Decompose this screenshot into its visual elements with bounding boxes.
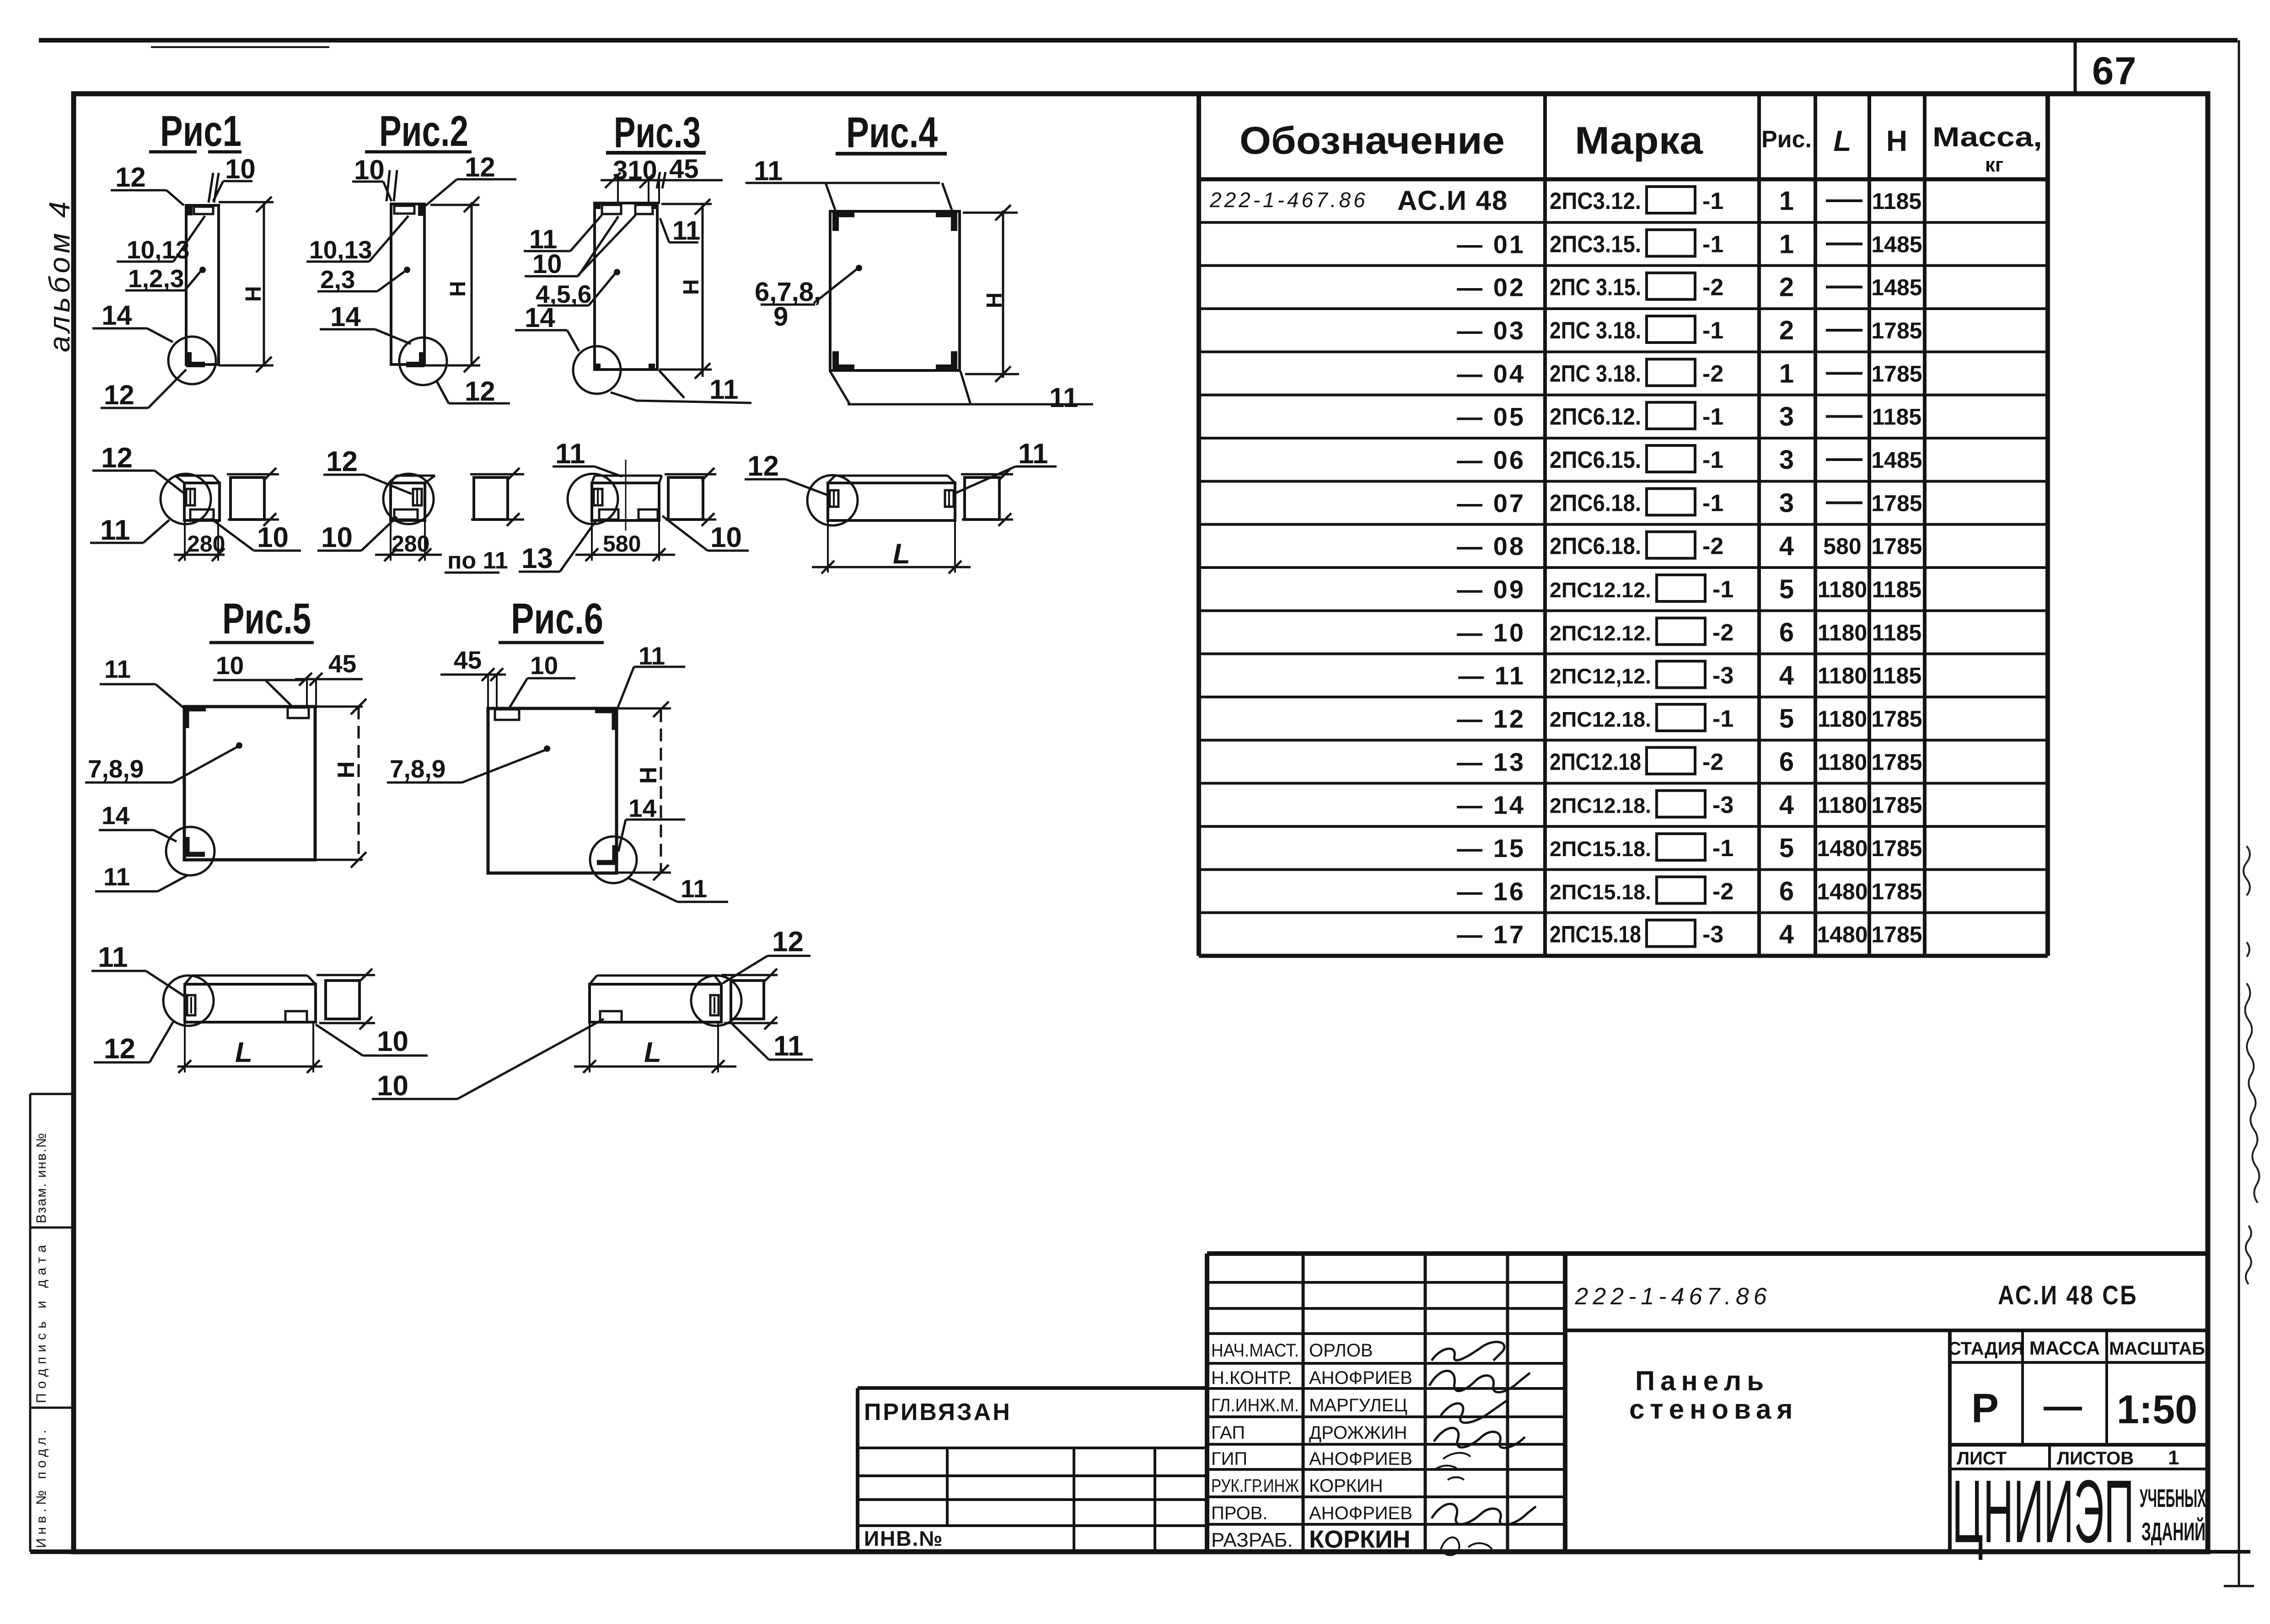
svg-text:-1: -1 <box>1702 447 1723 473</box>
svg-text:1: 1 <box>1779 229 1794 259</box>
svg-text:4: 4 <box>1779 531 1794 561</box>
svg-text:2ПС15.18.: 2ПС15.18. <box>1550 837 1651 861</box>
svg-text:-1: -1 <box>1702 490 1723 516</box>
svg-text:ПРОВ.: ПРОВ. <box>1211 1503 1267 1523</box>
svg-text:-1: -1 <box>1702 188 1723 214</box>
svg-text:2ПС15.18.: 2ПС15.18. <box>1550 880 1651 904</box>
svg-text:1:50: 1:50 <box>2117 1387 2197 1432</box>
svg-text:КОРКИН: КОРКИН <box>1309 1476 1383 1496</box>
svg-text:5: 5 <box>1779 833 1794 863</box>
svg-text:Рис.: Рис. <box>1761 126 1812 153</box>
svg-text:Н: Н <box>446 281 470 297</box>
svg-text:ОРЛОВ: ОРЛОВ <box>1309 1340 1373 1361</box>
svg-text:1: 1 <box>1779 186 1794 216</box>
svg-text:ЗДАНИЙ: ЗДАНИЙ <box>2141 1517 2206 1546</box>
svg-text:Обозначение: Обозначение <box>1240 119 1505 162</box>
svg-text:1480: 1480 <box>1817 922 1868 948</box>
svg-text:-1: -1 <box>1712 706 1733 732</box>
svg-text:10: 10 <box>321 522 353 553</box>
svg-text:— 09: — 09 <box>1457 575 1525 604</box>
svg-text:L: L <box>1833 124 1851 157</box>
svg-text:11: 11 <box>672 216 700 246</box>
svg-text:НАЧ.МАСТ.: НАЧ.МАСТ. <box>1211 1340 1299 1361</box>
svg-text:1180: 1180 <box>1818 749 1867 775</box>
svg-text:1485: 1485 <box>1871 231 1922 257</box>
svg-text:-1: -1 <box>1702 404 1723 430</box>
svg-text:1185: 1185 <box>1872 404 1921 430</box>
svg-text:Рис1: Рис1 <box>160 107 241 155</box>
svg-text:РАЗРАБ.: РАЗРАБ. <box>1211 1529 1293 1551</box>
svg-text:-2: -2 <box>1702 749 1723 775</box>
svg-text:1180: 1180 <box>1818 620 1867 645</box>
svg-text:L: L <box>893 538 910 570</box>
svg-text:1185: 1185 <box>1872 663 1921 689</box>
svg-text:1: 1 <box>1779 359 1794 388</box>
svg-text:10: 10 <box>216 651 244 680</box>
svg-text:МАСШТАБ: МАСШТАБ <box>2109 1339 2205 1359</box>
svg-text:Взам. инв.№: Взам. инв.№ <box>34 1132 49 1223</box>
svg-text:280: 280 <box>187 531 225 557</box>
svg-text:L: L <box>235 1037 252 1068</box>
svg-text:РУК.ГР.ИНЖ: РУК.ГР.ИНЖ <box>1211 1476 1299 1496</box>
svg-text:Рис.3: Рис.3 <box>614 108 701 157</box>
svg-text:1785: 1785 <box>1871 490 1922 516</box>
svg-text:6: 6 <box>1779 747 1794 777</box>
svg-text:2ПС12,12.: 2ПС12,12. <box>1550 665 1651 688</box>
svg-text:2ПС12.18.: 2ПС12.18. <box>1550 794 1651 818</box>
svg-text:4: 4 <box>1779 790 1794 820</box>
svg-text:11: 11 <box>1018 438 1048 470</box>
svg-text:ДРОЖЖИН: ДРОЖЖИН <box>1309 1423 1407 1443</box>
svg-text:Н: Н <box>241 286 266 302</box>
svg-text:11: 11 <box>773 1030 804 1062</box>
svg-text:7,8,9: 7,8,9 <box>88 755 144 783</box>
svg-text:1485: 1485 <box>1871 447 1922 473</box>
svg-text:2ПС 3.18.: 2ПС 3.18. <box>1550 317 1641 344</box>
svg-text:9: 9 <box>773 302 788 332</box>
svg-text:— 05: — 05 <box>1457 402 1525 431</box>
svg-text:2ПС6.18.: 2ПС6.18. <box>1550 533 1641 560</box>
svg-text:КОРКИН: КОРКИН <box>1309 1526 1411 1553</box>
svg-text:-1: -1 <box>1702 231 1723 257</box>
svg-text:4: 4 <box>1779 920 1794 949</box>
svg-text:ПРИВЯЗАН: ПРИВЯЗАН <box>864 1399 1012 1426</box>
svg-text:580: 580 <box>1823 534 1861 559</box>
svg-text:10: 10 <box>257 522 289 553</box>
svg-text:Н.КОНТР.: Н.КОНТР. <box>1211 1368 1293 1388</box>
svg-text:-2: -2 <box>1712 878 1733 905</box>
svg-text:3: 3 <box>1779 488 1794 518</box>
svg-text:-3: -3 <box>1712 792 1733 819</box>
svg-text:12: 12 <box>104 1033 135 1065</box>
svg-text:2ПС6.18.: 2ПС6.18. <box>1550 490 1641 516</box>
svg-text:Н: Н <box>333 761 360 778</box>
svg-text:ИНВ.№: ИНВ.№ <box>864 1527 944 1550</box>
svg-text:2: 2 <box>1779 316 1794 345</box>
svg-text:— 06: — 06 <box>1457 445 1525 474</box>
svg-text:Рис.5: Рис.5 <box>222 595 311 643</box>
svg-text:2ПС12.12.: 2ПС12.12. <box>1550 578 1651 602</box>
svg-text:10: 10 <box>377 1070 408 1102</box>
svg-text:45: 45 <box>328 649 356 678</box>
svg-text:11: 11 <box>103 863 130 891</box>
svg-text:2ПС12.12.: 2ПС12.12. <box>1550 621 1651 645</box>
svg-text:1,2,3: 1,2,3 <box>128 264 184 293</box>
svg-text:ГЛ.ИНЖ.М.: ГЛ.ИНЖ.М. <box>1211 1395 1299 1415</box>
svg-text:1480: 1480 <box>1817 836 1868 861</box>
svg-text:Рис.2: Рис.2 <box>379 107 468 155</box>
svg-text:Марка: Марка <box>1575 119 1703 162</box>
svg-text:2: 2 <box>1779 273 1794 302</box>
svg-text:1785: 1785 <box>1871 879 1922 904</box>
svg-text:10: 10 <box>377 1026 408 1057</box>
svg-text:1180: 1180 <box>1818 577 1867 602</box>
svg-text:1785: 1785 <box>1871 706 1922 732</box>
svg-text:12: 12 <box>101 442 133 474</box>
svg-text:12: 12 <box>115 162 146 193</box>
svg-text:222-1-467.86: 222-1-467.86 <box>1209 188 1368 212</box>
svg-text:Н: Н <box>982 292 1007 308</box>
svg-text:14: 14 <box>102 801 130 830</box>
svg-text:14: 14 <box>330 301 361 332</box>
svg-text:— 11: — 11 <box>1458 661 1525 690</box>
svg-text:1: 1 <box>2168 1447 2179 1469</box>
svg-text:АНОФРИЕВ: АНОФРИЕВ <box>1309 1368 1412 1388</box>
svg-text:— 02: — 02 <box>1457 273 1525 302</box>
svg-text:12: 12 <box>326 446 358 477</box>
svg-text:СТАДИЯ: СТАДИЯ <box>1948 1339 2024 1359</box>
svg-text:5: 5 <box>1779 704 1794 734</box>
svg-text:10: 10 <box>225 154 256 184</box>
svg-text:2ПС 3.15.: 2ПС 3.15. <box>1550 274 1641 301</box>
svg-text:45: 45 <box>454 646 482 674</box>
svg-text:Н: Н <box>635 766 662 784</box>
svg-text:АС.И 48 СБ: АС.И 48 СБ <box>1998 1281 2138 1310</box>
svg-text:Масса,: Масса, <box>1932 122 2042 152</box>
svg-text:ГАП: ГАП <box>1211 1423 1245 1443</box>
svg-text:1480: 1480 <box>1817 879 1868 904</box>
svg-text:580: 580 <box>603 531 641 557</box>
svg-text:1485: 1485 <box>1871 275 1922 300</box>
svg-text:6: 6 <box>1779 617 1794 647</box>
svg-text:10: 10 <box>530 651 558 680</box>
svg-text:1785: 1785 <box>1871 534 1922 559</box>
svg-text:1180: 1180 <box>1818 663 1867 689</box>
svg-text:Н: Н <box>1886 124 1907 157</box>
svg-text:— 01: — 01 <box>1457 230 1525 258</box>
svg-text:222-1-467.86: 222-1-467.86 <box>1574 1283 1771 1310</box>
svg-text:Панель: Панель <box>1635 1366 1769 1396</box>
svg-text:11: 11 <box>681 874 707 903</box>
svg-text:11: 11 <box>555 438 585 470</box>
svg-text:Подпись и дата: Подпись и дата <box>34 1240 49 1403</box>
svg-text:3: 3 <box>1779 402 1794 432</box>
svg-text:по 11: по 11 <box>447 547 508 574</box>
svg-text:-1: -1 <box>1712 835 1733 862</box>
svg-text:— 10: — 10 <box>1457 618 1525 647</box>
svg-text:10: 10 <box>532 249 562 279</box>
svg-text:7,8,9: 7,8,9 <box>390 755 445 783</box>
svg-text:— 14: — 14 <box>1457 791 1525 820</box>
svg-text:2ПС12.18.: 2ПС12.18. <box>1550 707 1651 731</box>
svg-text:12: 12 <box>104 380 134 410</box>
svg-text:5: 5 <box>1779 574 1794 604</box>
svg-text:— 03: — 03 <box>1457 316 1525 345</box>
svg-text:— 17: — 17 <box>1457 920 1525 949</box>
svg-text:3: 3 <box>1779 445 1794 475</box>
svg-text:Р: Р <box>1971 1386 1999 1431</box>
svg-text:АС.И 48: АС.И 48 <box>1397 185 1508 216</box>
svg-text:2,3: 2,3 <box>320 265 355 294</box>
svg-text:— 04: — 04 <box>1457 359 1525 388</box>
svg-text:1185: 1185 <box>1872 620 1921 645</box>
svg-text:67: 67 <box>2092 49 2137 93</box>
svg-text:12: 12 <box>465 152 495 182</box>
svg-text:10,13: 10,13 <box>309 236 372 264</box>
svg-text:11: 11 <box>100 515 130 546</box>
svg-text:-2: -2 <box>1712 619 1733 646</box>
svg-text:1785: 1785 <box>1871 922 1922 948</box>
svg-text:2ПС3.15.: 2ПС3.15. <box>1550 231 1641 257</box>
svg-text:10: 10 <box>710 522 742 553</box>
svg-text:— 07: — 07 <box>1457 488 1525 517</box>
svg-text:МАРГУЛЕЦ: МАРГУЛЕЦ <box>1309 1395 1407 1415</box>
svg-text:— 12: — 12 <box>1457 704 1525 733</box>
svg-text:-2: -2 <box>1702 360 1723 387</box>
svg-text:Инв.№ подл.: Инв.№ подл. <box>34 1426 49 1548</box>
svg-text:кг: кг <box>1985 154 2003 176</box>
svg-text:11: 11 <box>1049 382 1078 413</box>
svg-text:— 15: — 15 <box>1457 834 1525 863</box>
svg-text:11: 11 <box>104 655 131 683</box>
svg-text:-1: -1 <box>1712 576 1733 603</box>
svg-text:1785: 1785 <box>1871 749 1922 775</box>
svg-text:4: 4 <box>1779 661 1794 691</box>
svg-text:12: 12 <box>465 376 495 407</box>
svg-text:1785: 1785 <box>1871 361 1922 386</box>
svg-text:12: 12 <box>747 450 779 482</box>
svg-text:11: 11 <box>754 155 783 186</box>
svg-text:1185: 1185 <box>1872 188 1921 214</box>
svg-text:14: 14 <box>525 302 555 333</box>
svg-text:2ПС6.15.: 2ПС6.15. <box>1550 447 1641 473</box>
svg-text:МАССА: МАССА <box>2029 1337 2100 1359</box>
svg-text:11: 11 <box>98 942 128 973</box>
svg-text:1785: 1785 <box>1871 318 1922 343</box>
svg-text:-1: -1 <box>1702 317 1723 344</box>
svg-text:280: 280 <box>392 531 429 557</box>
svg-text:2ПС6.12.: 2ПС6.12. <box>1550 404 1641 430</box>
svg-text:УЧЕБНЫХ: УЧЕБНЫХ <box>2140 1484 2206 1512</box>
svg-text:14: 14 <box>628 794 657 822</box>
svg-text:альбом 4: альбом 4 <box>43 198 76 352</box>
svg-text:2ПС3.12.: 2ПС3.12. <box>1550 188 1641 214</box>
svg-text:Н: Н <box>679 279 703 295</box>
svg-text:— 16: — 16 <box>1457 877 1525 906</box>
svg-text:АНОФРИЕВ: АНОФРИЕВ <box>1309 1503 1412 1523</box>
svg-text:-2: -2 <box>1702 533 1723 560</box>
svg-text:-3: -3 <box>1712 663 1733 689</box>
svg-text:1785: 1785 <box>1871 793 1922 818</box>
svg-text:— 08: — 08 <box>1457 532 1525 561</box>
svg-text:— 13: — 13 <box>1457 747 1525 776</box>
svg-text:12: 12 <box>772 926 804 958</box>
svg-text:2ПС15.18: 2ПС15.18 <box>1550 922 1641 948</box>
svg-text:6: 6 <box>1779 876 1794 906</box>
svg-text:1785: 1785 <box>1871 836 1922 861</box>
svg-text:ЦНИИЭП: ЦНИИЭП <box>1952 1462 2134 1561</box>
svg-text:13: 13 <box>521 543 553 574</box>
svg-text:2ПС 3.18.: 2ПС 3.18. <box>1550 360 1641 387</box>
svg-text:Рис.6: Рис.6 <box>511 595 603 643</box>
svg-text:11: 11 <box>709 374 738 405</box>
svg-text:АНОФРИЕВ: АНОФРИЕВ <box>1309 1449 1412 1469</box>
svg-text:-3: -3 <box>1702 922 1723 948</box>
svg-text:-2: -2 <box>1702 274 1723 301</box>
svg-text:1180: 1180 <box>1818 706 1867 732</box>
svg-text:14: 14 <box>102 300 132 331</box>
svg-text:стеновая: стеновая <box>1629 1394 1798 1425</box>
svg-text:2ПС12.18: 2ПС12.18 <box>1550 749 1641 775</box>
svg-text:ГИП: ГИП <box>1211 1449 1247 1469</box>
svg-text:1180: 1180 <box>1818 793 1867 818</box>
svg-text:L: L <box>644 1037 661 1068</box>
svg-text:Рис.4: Рис.4 <box>846 108 938 157</box>
svg-text:1185: 1185 <box>1872 577 1921 602</box>
